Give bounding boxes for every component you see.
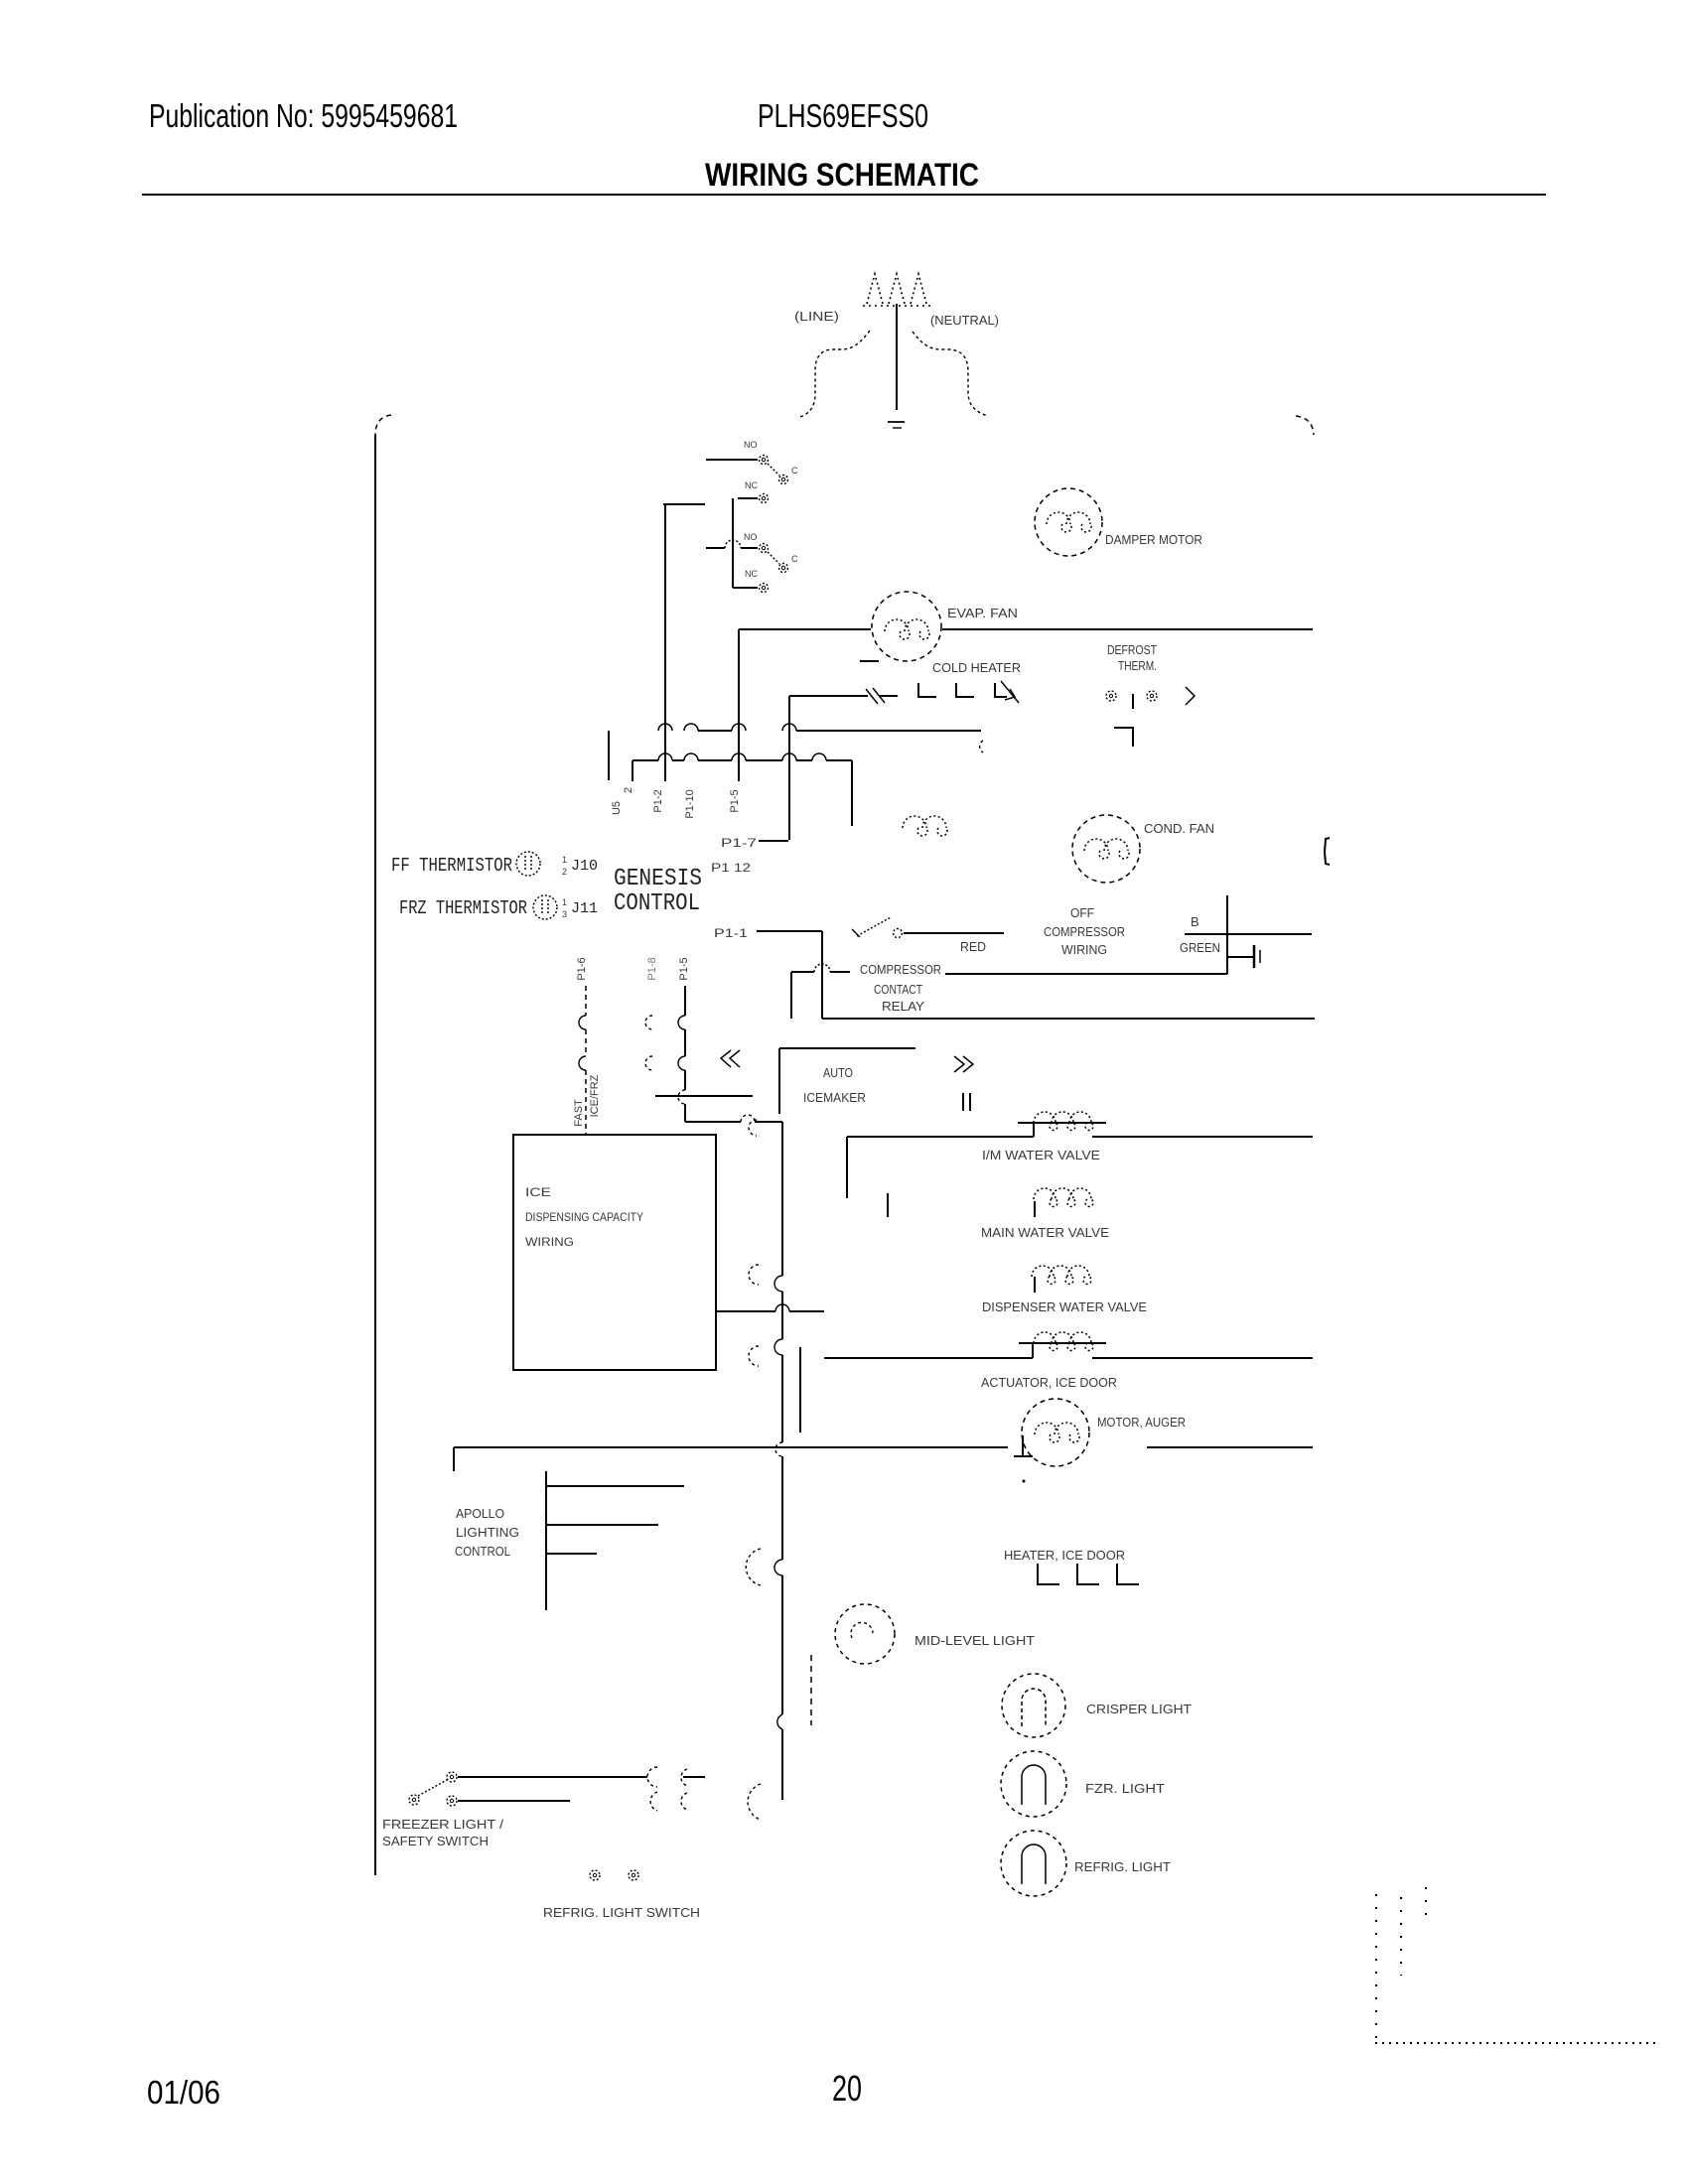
svg-text:CRISPER LIGHT: CRISPER LIGHT [1086, 1702, 1192, 1716]
svg-text:J10: J10 [571, 858, 598, 875]
svg-text:1: 1 [562, 855, 567, 865]
svg-text:AUTO: AUTO [823, 1065, 853, 1080]
svg-text:COMPRESSOR: COMPRESSOR [1044, 924, 1125, 939]
svg-text:DISPENSING CAPACITY: DISPENSING CAPACITY [525, 1210, 643, 1224]
svg-text:2: 2 [623, 787, 634, 793]
svg-text:WIRING: WIRING [1061, 942, 1107, 957]
svg-text:COND. FAN: COND. FAN [1144, 821, 1214, 836]
svg-text:CONTROL: CONTROL [614, 890, 700, 917]
svg-text:C: C [791, 554, 798, 564]
svg-text:NO: NO [744, 532, 758, 542]
svg-text:J11: J11 [571, 900, 598, 917]
svg-text:HEATER, ICE DOOR: HEATER, ICE DOOR [1004, 1548, 1125, 1563]
svg-text:WIRING: WIRING [525, 1235, 574, 1249]
svg-text:3: 3 [562, 909, 567, 919]
svg-text:EVAP. FAN: EVAP. FAN [947, 606, 1018, 620]
svg-text:ACTUATOR, ICE DOOR: ACTUATOR, ICE DOOR [981, 1375, 1117, 1390]
svg-text:DISPENSER WATER VALVE: DISPENSER WATER VALVE [982, 1299, 1147, 1314]
svg-text:2: 2 [562, 867, 567, 877]
svg-text:Publication No: 5995459681: Publication No: 5995459681 [149, 97, 458, 134]
svg-text:APOLLO: APOLLO [456, 1506, 504, 1521]
svg-text:P1-6: P1-6 [576, 957, 588, 980]
svg-text:PLHS69EFSS0: PLHS69EFSS0 [758, 97, 928, 134]
svg-text:P1-8: P1-8 [646, 957, 658, 980]
svg-text:FZR. LIGHT: FZR. LIGHT [1085, 1781, 1165, 1796]
svg-text:FRZ THERMISTOR: FRZ THERMISTOR [399, 897, 527, 919]
svg-text:SAFETY SWITCH: SAFETY SWITCH [382, 1834, 489, 1848]
svg-text:REFRIG. LIGHT: REFRIG. LIGHT [1074, 1859, 1171, 1874]
svg-text:GENESIS: GENESIS [614, 866, 702, 892]
svg-text:NC: NC [745, 569, 758, 579]
svg-text:P1-1: P1-1 [714, 926, 748, 940]
svg-text:THERM.: THERM. [1118, 658, 1157, 673]
svg-text:(NEUTRAL): (NEUTRAL) [930, 313, 999, 328]
svg-text:OFF: OFF [1070, 905, 1094, 920]
svg-text:WIRING SCHEMATIC: WIRING SCHEMATIC [705, 157, 979, 193]
svg-text:U5: U5 [611, 801, 623, 815]
svg-text:P1-5: P1-5 [729, 789, 741, 812]
svg-text:P1 12: P1 12 [711, 861, 751, 875]
svg-text:COMPRESSOR: COMPRESSOR [860, 962, 941, 977]
svg-text:P1-5: P1-5 [678, 957, 690, 980]
svg-text:ICE/FRZ: ICE/FRZ [589, 1074, 601, 1117]
svg-text:P1-7: P1-7 [721, 836, 757, 850]
svg-text:REFRIG. LIGHT SWITCH: REFRIG. LIGHT SWITCH [543, 1905, 700, 1920]
svg-text:FF THERMISTOR: FF THERMISTOR [391, 855, 512, 877]
svg-text:CONTROL: CONTROL [455, 1544, 510, 1559]
svg-text:FAST: FAST [573, 1099, 585, 1127]
svg-text:20: 20 [832, 2068, 862, 2109]
svg-text:(LINE): (LINE) [794, 309, 839, 324]
svg-text:NO: NO [744, 440, 758, 450]
svg-text:MOTOR, AUGER: MOTOR, AUGER [1097, 1415, 1186, 1430]
svg-text:1: 1 [562, 897, 567, 907]
svg-text:MAIN WATER VALVE: MAIN WATER VALVE [981, 1225, 1109, 1240]
svg-text:B: B [1191, 914, 1199, 929]
svg-text:01/06: 01/06 [147, 2074, 220, 2111]
svg-text:MID-LEVEL LIGHT: MID-LEVEL LIGHT [914, 1633, 1035, 1648]
svg-text:NC: NC [745, 480, 758, 490]
svg-text:FREEZER LIGHT /: FREEZER LIGHT / [382, 1817, 503, 1832]
svg-text:RELAY: RELAY [882, 999, 924, 1014]
svg-text:I/M WATER VALVE: I/M WATER VALVE [982, 1148, 1100, 1162]
svg-text:ICE: ICE [525, 1185, 551, 1199]
svg-text:P1-10: P1-10 [684, 789, 696, 818]
svg-text:RED: RED [960, 939, 986, 954]
svg-text:LIGHTING: LIGHTING [456, 1525, 519, 1540]
svg-text:COLD HEATER: COLD HEATER [932, 660, 1021, 675]
svg-text:DEFROST: DEFROST [1107, 642, 1157, 657]
svg-text:P1-2: P1-2 [652, 789, 664, 812]
svg-text:DAMPER MOTOR: DAMPER MOTOR [1105, 532, 1202, 547]
svg-text:C: C [791, 466, 798, 476]
svg-text:CONTACT: CONTACT [874, 982, 922, 997]
svg-text:GREEN: GREEN [1180, 940, 1220, 955]
svg-text:ICEMAKER: ICEMAKER [803, 1090, 866, 1105]
